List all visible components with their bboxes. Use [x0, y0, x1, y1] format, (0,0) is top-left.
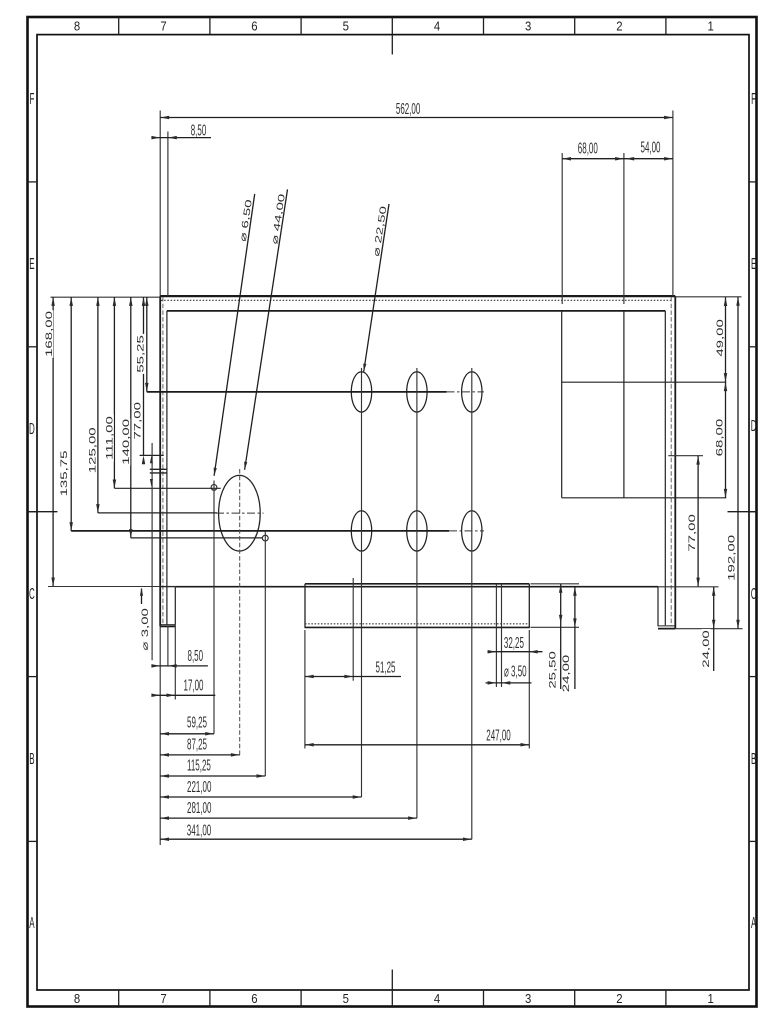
ext line small hole right [501, 584, 503, 687]
grid label A right [751, 914, 757, 932]
left leg bend line (dashed) [162, 297, 164, 625]
svg-text:6: 6 [251, 991, 258, 1006]
svg-text:221,00: 221,00 [187, 778, 211, 796]
dim 68.00 top [562, 158, 624, 160]
dim 8,50 bottom [152, 665, 208, 667]
grid row separator right [749, 346, 757, 348]
svg-text:168,00: 168,00 [44, 311, 54, 357]
grid row separator left [28, 840, 38, 842]
dim 24.00 right [713, 587, 715, 671]
bottom hole row line [71, 530, 449, 532]
dim 24.00 mid [574, 587, 576, 689]
svg-text:115,25: 115,25 [187, 757, 211, 775]
bottom flange left edge [304, 584, 306, 628]
svg-text:4: 4 [434, 19, 441, 34]
bottom hole row centerline extension [449, 530, 484, 532]
svg-text:24,00: 24,00 [561, 655, 571, 693]
svg-text:32,25: 32,25 [504, 634, 524, 652]
part top inner edge [167, 310, 665, 312]
grid label C right [751, 585, 757, 603]
grid label 5 bottom [343, 991, 350, 1006]
grid column separator top [209, 17, 211, 35]
slot mini arrow up [150, 456, 153, 464]
leader D3.00 [141, 589, 143, 605]
svg-text:⌀ 3,00: ⌀ 3,00 [140, 608, 150, 650]
grid row separator left [28, 511, 38, 513]
right leg outer edge [674, 296, 676, 629]
grid label E right [751, 255, 756, 273]
svg-text:8: 8 [74, 19, 81, 34]
grid column separator top [391, 17, 393, 35]
left tab line a [150, 468, 167, 470]
hole D22.5 top row 2 [407, 372, 427, 412]
slot mini arrow down [150, 479, 153, 487]
grid label 6 bottom [251, 991, 258, 1006]
hole D22.5 bottom row 2 [407, 511, 427, 551]
part top bend line (dotted) [161, 299, 672, 301]
grid label 1 bottom [707, 991, 714, 1006]
dim 49.00 right [725, 297, 727, 382]
svg-text:2: 2 [616, 19, 623, 34]
dim 341,00 bottom [160, 838, 472, 840]
right foot bottom inner [658, 625, 675, 627]
svg-text:77,00: 77,00 [132, 402, 142, 440]
svg-text:6: 6 [251, 19, 258, 34]
right recess vertical 1 [561, 311, 563, 498]
grid label C left [29, 585, 35, 603]
svg-text:A: A [751, 914, 757, 932]
ext line hole column 3 [471, 368, 473, 839]
ext line flange right down [528, 630, 530, 749]
svg-text:4: 4 [434, 991, 441, 1006]
dim 125,00 left [97, 297, 99, 513]
left tab line b [150, 472, 167, 474]
ext line 51.25 right [352, 578, 354, 681]
ext line 68 left [561, 153, 563, 304]
grid column separator bottom [483, 990, 485, 1007]
dim 51.25 [305, 676, 401, 678]
ext line 68/54 mid [623, 153, 625, 304]
bottom flange bend line (dotted) [305, 623, 529, 625]
bottom centring mark [391, 970, 393, 991]
grid column separator top [483, 17, 485, 35]
dim 25.50 [560, 584, 562, 689]
svg-text:D: D [29, 420, 35, 438]
grid label 7 top [160, 19, 167, 34]
svg-text:B: B [29, 750, 34, 768]
ext line hole D3.5 down [264, 531, 266, 776]
svg-text:7: 7 [160, 991, 167, 1006]
svg-text:3: 3 [525, 19, 532, 34]
grid label 5 top [343, 19, 350, 34]
dim 140,00 left [130, 297, 132, 538]
grid column separator bottom [665, 990, 667, 1007]
dim 168,00 left [52, 297, 54, 586]
grid label 6 top [251, 19, 258, 34]
grid label 2 top [616, 19, 623, 34]
svg-text:24,00: 24,00 [701, 630, 711, 668]
ext line 168 bottom [48, 586, 160, 588]
grid column separator bottom [118, 990, 120, 1007]
svg-text:125,00: 125,00 [87, 427, 97, 473]
ext line top-left corner to dims [51, 296, 161, 298]
grid label D left [29, 420, 35, 438]
dim 247.00 [305, 744, 529, 746]
dim 115,25 bottom [160, 775, 265, 777]
dim 87,25 bottom [160, 754, 240, 756]
ext line part left top [159, 111, 161, 297]
right foot bottom outer [658, 628, 675, 630]
dim 281,00 bottom [160, 817, 417, 819]
svg-text:F: F [29, 90, 34, 108]
grid row separator right [749, 676, 757, 678]
grid label B left [29, 750, 34, 768]
grid label 2 bottom [616, 991, 623, 1006]
grid label 1 top [707, 19, 714, 34]
svg-text:2: 2 [616, 991, 623, 1006]
svg-text:111,00: 111,00 [104, 416, 114, 460]
svg-text:140,00: 140,00 [121, 419, 131, 465]
svg-text:⌀ 3,50: ⌀ 3,50 [504, 662, 527, 680]
right recess horizontal 2 + extension [562, 497, 727, 499]
leader D6.50 [214, 194, 255, 476]
svg-text:5: 5 [343, 991, 350, 1006]
svg-text:247,00: 247,00 [486, 726, 510, 744]
right recess horizontal 1 + extension [562, 381, 727, 383]
ext line leg left lower [159, 626, 161, 845]
grid row separator right [749, 181, 757, 183]
left foot bottom outer [160, 625, 175, 627]
leader D44.00 [245, 189, 288, 469]
hole D22.5 bottom row 3 [462, 511, 482, 551]
svg-text:C: C [751, 585, 757, 603]
right recess vertical 2 [623, 311, 625, 498]
svg-text:3: 3 [525, 991, 532, 1006]
dim 59,25 bottom [160, 733, 214, 735]
leader 111.00 to hole D6.5 [114, 487, 220, 489]
top hole row line [147, 391, 447, 393]
dim 77,00 left [143, 297, 145, 455]
right centring mark [728, 511, 757, 513]
ext line right foot bottom [675, 628, 742, 630]
grid label F right [751, 90, 756, 108]
grid column separator top [574, 17, 576, 35]
svg-text:8,50: 8,50 [191, 121, 207, 139]
ext line flange top right [531, 583, 580, 585]
svg-text:A: A [29, 914, 35, 932]
right leg inner edge [664, 311, 666, 625]
grid column separator top [300, 17, 302, 35]
grid row separator right [749, 511, 757, 513]
top hole row centerline extension [447, 391, 485, 393]
leader 125.00 to ellipse center [98, 512, 217, 514]
svg-text:281,00: 281,00 [187, 799, 211, 817]
ext line hole D6.5 down [213, 481, 215, 734]
ext line hole column 1 [361, 368, 363, 797]
right leg bend line (dashed) [670, 297, 672, 626]
ext line part top right [675, 296, 741, 298]
body bottom edge across left leg [160, 586, 175, 588]
hole D22.5 top row 3 [462, 372, 482, 412]
grid column separator bottom [209, 990, 211, 1007]
svg-text:1: 1 [707, 991, 714, 1006]
svg-text:17,00: 17,00 [184, 676, 204, 694]
dim 77.00 right [697, 456, 699, 587]
grid row separator right [749, 840, 757, 842]
svg-text:59,25: 59,25 [187, 714, 207, 732]
grid label 8 bottom [74, 991, 81, 1006]
svg-text:341,00: 341,00 [187, 822, 211, 840]
svg-text:25,50: 25,50 [547, 651, 557, 689]
svg-text:562,00: 562,00 [396, 100, 420, 118]
bottom flange bottom edge [305, 626, 530, 628]
dim 221,00 bottom [160, 796, 361, 798]
dim 32.25 [488, 651, 543, 653]
dim 111,00 left [113, 297, 115, 488]
grid label A left [29, 914, 35, 932]
grid label E left [29, 255, 34, 273]
hole D44 ellipse [219, 475, 261, 551]
grid label 8 top [74, 19, 81, 34]
dim D3.50 [486, 682, 532, 684]
grid label 3 top [525, 19, 532, 34]
ext line leg inner lower [167, 626, 169, 666]
left foot bottom inner [160, 624, 175, 626]
left leg outer edge [159, 296, 161, 626]
svg-text:54,00: 54,00 [641, 139, 661, 157]
ellipse vertical centerline (dashed) [239, 469, 241, 755]
dim 54.00 top [624, 158, 673, 160]
dim 192.00 right [737, 297, 739, 629]
svg-text:B: B [751, 750, 756, 768]
ext line small hole left [495, 584, 497, 687]
left foot right edge [174, 587, 176, 625]
svg-text:49,00: 49,00 [715, 319, 725, 357]
part top edge [160, 295, 675, 297]
svg-text:C: C [29, 585, 35, 603]
left leg inner edge [166, 311, 168, 625]
grid column separator top [118, 17, 120, 35]
grid label 4 top [434, 19, 441, 34]
svg-text:E: E [751, 255, 756, 273]
bottom flange right edge [528, 584, 530, 628]
grid column separator bottom [391, 990, 393, 1007]
svg-text:1: 1 [707, 19, 714, 34]
grid column separator bottom [300, 990, 302, 1007]
grid row separator left [28, 346, 38, 348]
top centring mark [391, 35, 393, 55]
grid label D right [751, 417, 757, 435]
svg-text:51,25: 51,25 [376, 658, 396, 676]
svg-text:5: 5 [343, 19, 350, 34]
grid label F left [29, 90, 34, 108]
ext line 77 right top [668, 455, 703, 457]
svg-text:192,00: 192,00 [726, 535, 736, 581]
bottom flange top edge [305, 583, 529, 585]
dim 135,75 left [70, 297, 72, 531]
left centring mark [28, 511, 58, 513]
hole D22.5 top row 1 [351, 372, 371, 412]
hole D22.5 bottom row 1 [351, 511, 371, 551]
ellipse horizontal centerline [216, 512, 264, 514]
ext line slot column [151, 443, 153, 660]
grid label 4 bottom [434, 991, 441, 1006]
grid column separator bottom [574, 990, 576, 1007]
ext line hole column 2 [416, 368, 418, 818]
dim 8.50 top [152, 137, 211, 139]
body bottom edge [175, 586, 658, 588]
ext line flange bottom right [531, 626, 580, 628]
leader D22.50 [364, 204, 389, 372]
ext line flange left down [304, 630, 306, 749]
dim 68.00 right [725, 382, 727, 497]
svg-text:68,00: 68,00 [714, 419, 724, 457]
dim 55,25 left [146, 297, 148, 392]
grid label 3 bottom [525, 991, 532, 1006]
grid row separator left [28, 676, 38, 678]
ext line body bottom right [658, 586, 719, 588]
leader 140.00 to hole D3.5 [131, 537, 262, 539]
svg-text:E: E [29, 255, 34, 273]
svg-text:87,25: 87,25 [187, 736, 207, 754]
left tab edge line [140, 454, 164, 456]
grid label 7 bottom [160, 991, 167, 1006]
svg-text:8,50: 8,50 [188, 647, 204, 665]
ext line part right top [672, 111, 674, 297]
right foot left edge [657, 587, 659, 627]
hole D6.5 [211, 485, 217, 491]
hole D3.5 left [262, 535, 268, 541]
ext line foot right lower [174, 625, 176, 700]
svg-text:D: D [751, 417, 757, 435]
grid row separator left [28, 181, 38, 183]
svg-text:F: F [751, 90, 756, 108]
dim 562.00 [160, 117, 673, 119]
svg-text:68,00: 68,00 [578, 139, 598, 157]
svg-text:7: 7 [160, 19, 167, 34]
dim 17,00 bottom [152, 694, 216, 696]
grid column separator top [665, 17, 667, 35]
svg-text:77,00: 77,00 [687, 514, 697, 552]
svg-text:135,75: 135,75 [59, 450, 69, 496]
grid label B right [751, 750, 756, 768]
svg-text:8: 8 [74, 991, 81, 1006]
svg-text:55,25: 55,25 [135, 335, 145, 373]
ext line part left inner top [167, 132, 169, 297]
